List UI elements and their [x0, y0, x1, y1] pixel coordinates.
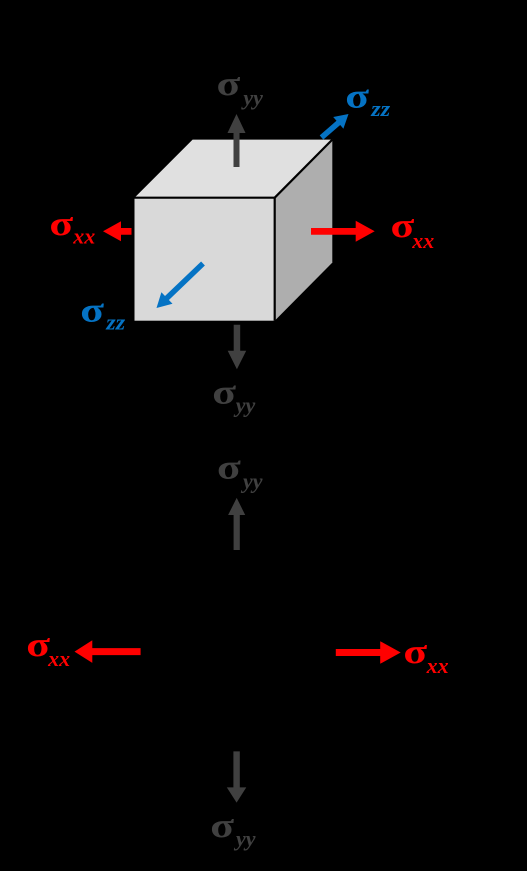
svg-text:xx: xx — [411, 228, 434, 253]
svg-text:yy: yy — [233, 392, 256, 417]
label sigma_xx 2D left — [26, 625, 70, 671]
svg-text:σ: σ — [345, 76, 369, 115]
label sigma_zz bottom-left — [80, 290, 125, 335]
label sigma_yy top — [217, 64, 264, 110]
svg-text:σ: σ — [217, 64, 241, 103]
cube top face — [135, 140, 333, 198]
svg-text:σ: σ — [212, 373, 236, 412]
svg-text:σ: σ — [49, 204, 73, 243]
label sigma_xx right — [391, 206, 435, 253]
svg-text:yy: yy — [240, 85, 263, 110]
label sigma_xx 2D right — [403, 632, 448, 678]
arrow sigma_yy bottom of cube (gray, down) — [228, 325, 247, 370]
svg-text:σ: σ — [80, 290, 104, 329]
cube edge front-right — [274, 198, 276, 321]
label sigma_yy 2D top — [217, 447, 263, 493]
cube edge front-top — [135, 197, 275, 199]
cube edge top-right diagonal — [275, 140, 333, 198]
svg-text:yy: yy — [233, 826, 256, 851]
arrow sigma_xx right (red, pointing right) — [311, 221, 375, 242]
arrow sigma_yy 2D top (gray, up) — [228, 498, 245, 550]
arrow sigma_yy 2D bottom (gray, down) — [227, 751, 247, 802]
label sigma_yy below cube — [212, 373, 255, 418]
arrow sigma_xx 2D left (red, pointing left) — [75, 640, 141, 663]
svg-text:xx: xx — [72, 224, 95, 249]
arrow sigma_xx 2D right (red, pointing right) — [336, 641, 401, 664]
arrow sigma_xx left (red, pointing left) — [103, 221, 132, 241]
svg-text:σ: σ — [217, 447, 241, 486]
label sigma_xx left — [49, 204, 95, 249]
svg-text:σ: σ — [403, 632, 427, 671]
arrow sigma_zz back (blue, up-right) — [320, 114, 349, 140]
svg-text:σ: σ — [391, 206, 415, 245]
cube front face — [135, 198, 275, 321]
label sigma_yy 2D bottom — [210, 806, 256, 851]
arrow sigma_yy top (gray, up) — [228, 114, 246, 167]
svg-text:yy: yy — [240, 468, 263, 493]
svg-text:σ: σ — [26, 625, 50, 664]
arrow sigma_zz front (blue, down-left on front face) — [157, 262, 205, 309]
2D plane-stress element square (black on black) — [142, 550, 334, 751]
svg-text:xx: xx — [47, 646, 70, 671]
cube right face — [275, 140, 333, 321]
svg-text:zz: zz — [370, 97, 390, 122]
svg-text:σ: σ — [210, 806, 234, 845]
svg-text:xx: xx — [426, 653, 449, 678]
label sigma_zz top-right — [345, 76, 390, 122]
svg-text:zz: zz — [105, 311, 125, 336]
